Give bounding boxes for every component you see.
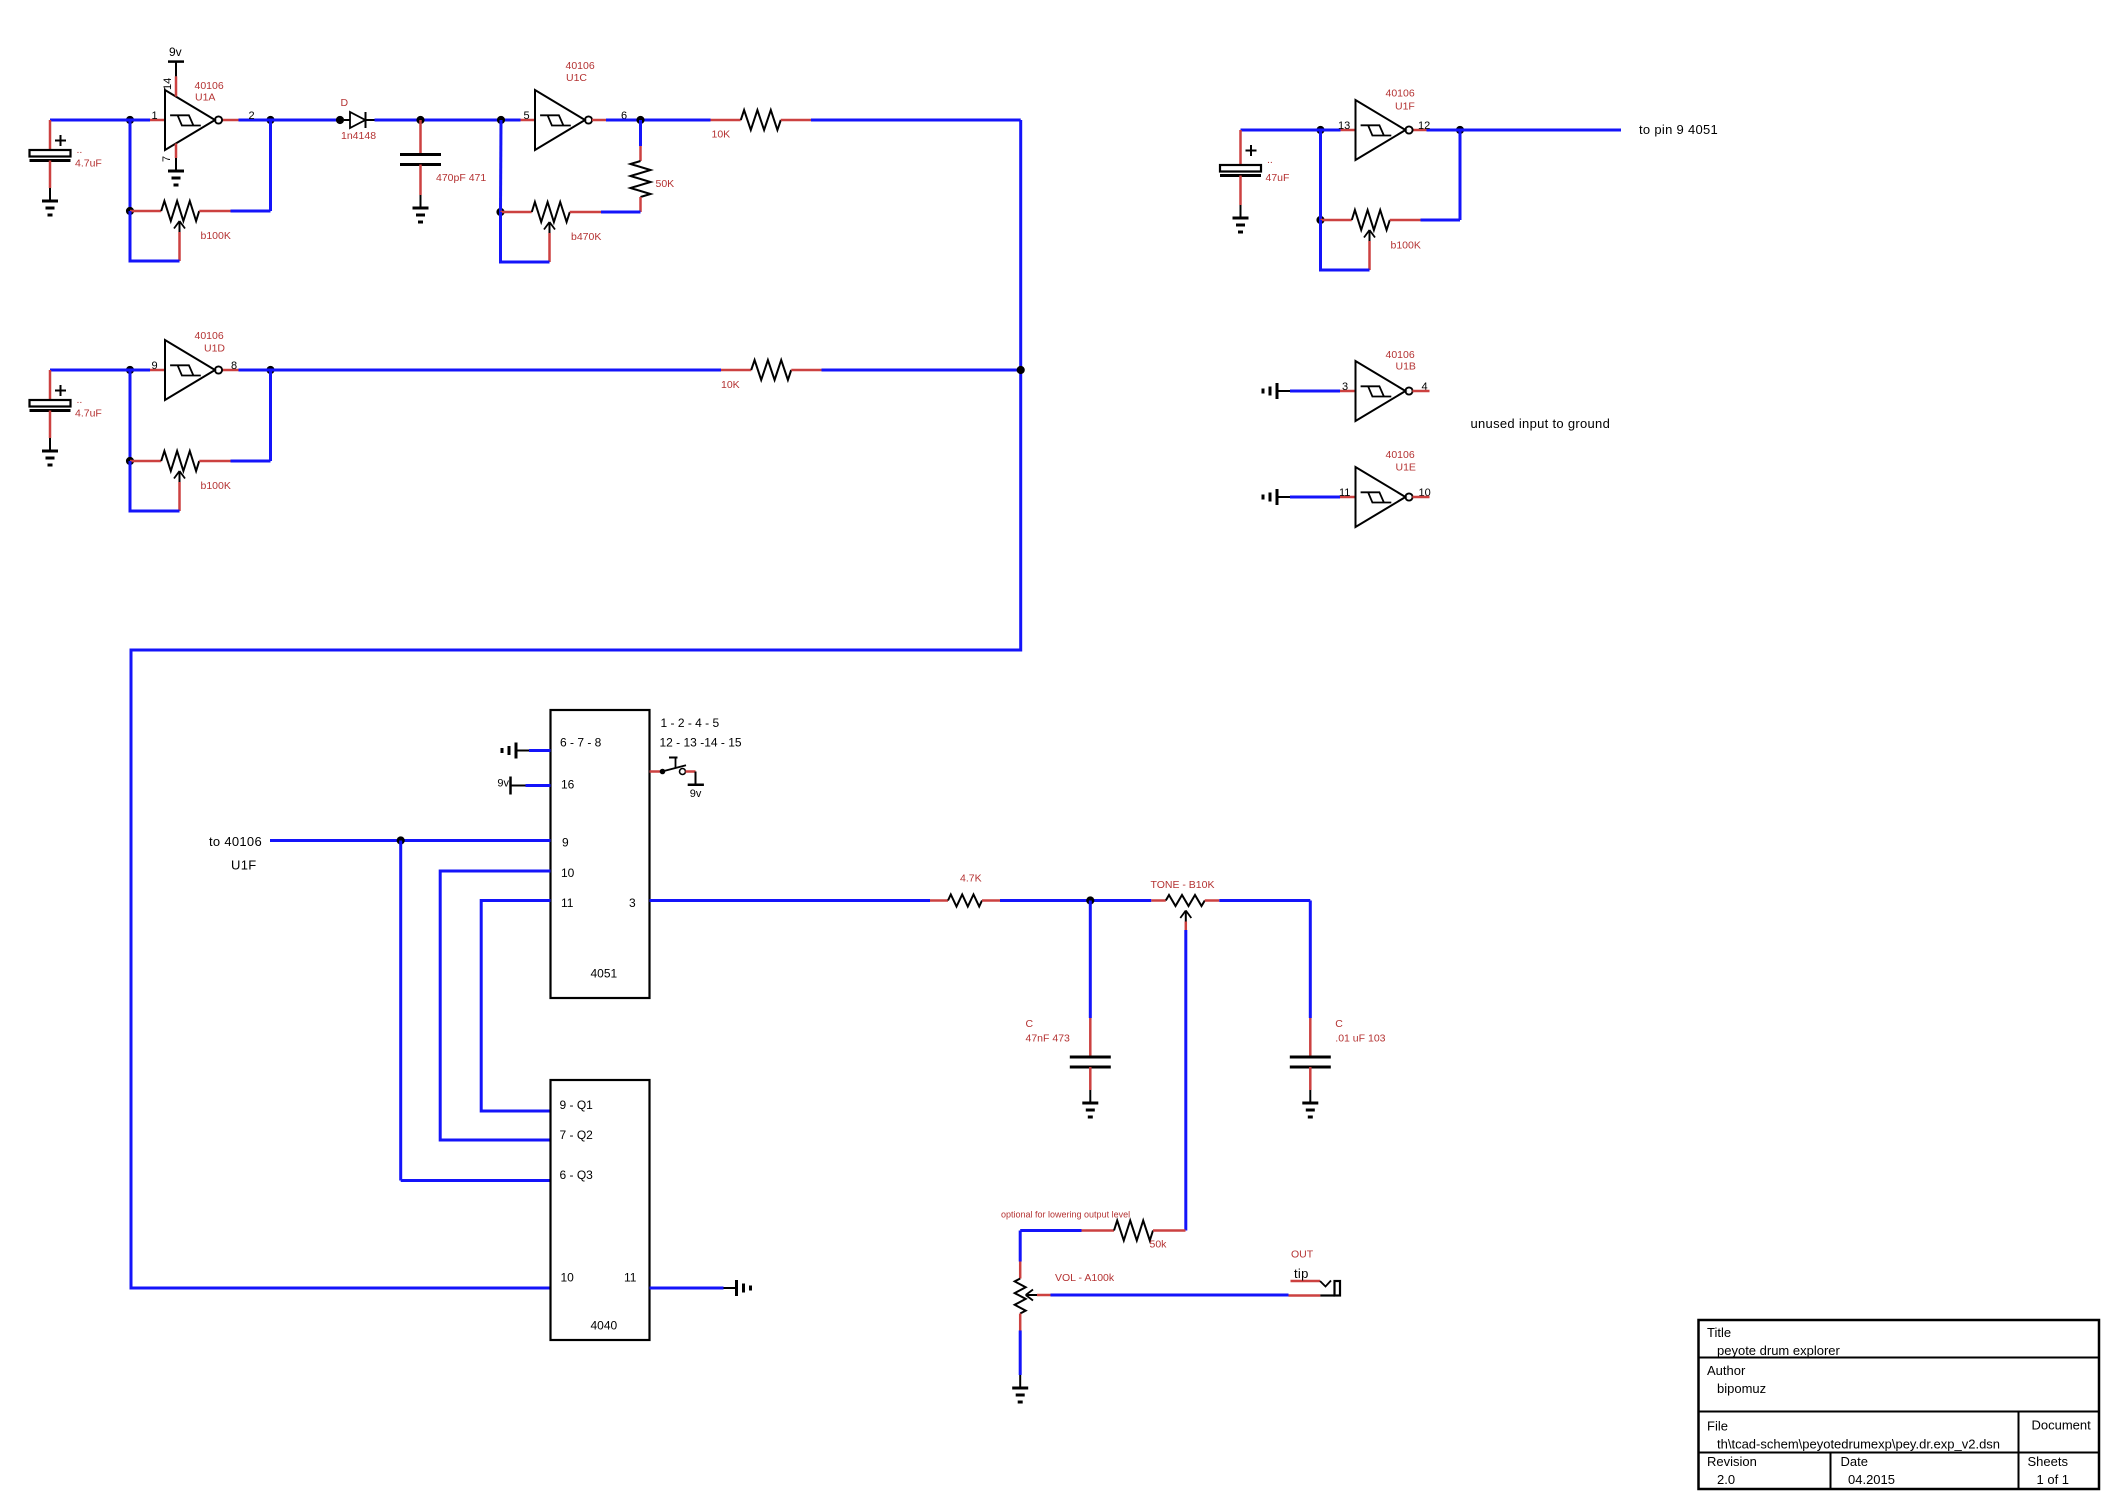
switch left contact: [660, 769, 666, 775]
capacitor C4 47uF: [1220, 165, 1261, 176]
node pot b470K left junction: [496, 208, 504, 216]
svg-text:TONE - B10K: TONE - B10K: [1151, 879, 1215, 891]
ground U1E input: [1263, 489, 1290, 505]
svg-text:U1E: U1E: [1396, 462, 1416, 474]
ground pin7 U1A: [168, 158, 184, 185]
pin 12 stub U1F: [1413, 129, 1427, 132]
resistor 50k: [1082, 1221, 1186, 1241]
svg-text:11: 11: [624, 1271, 637, 1285]
wire C4 to pin13: [1241, 129, 1341, 132]
svg-text:File: File: [1707, 1419, 1728, 1434]
inverter U1F: [1356, 100, 1413, 160]
wire pot1 wiper loop: [130, 211, 180, 261]
capacitor C5 47nF: [1070, 1057, 1111, 1067]
wire pin5 down to pot: [499, 120, 503, 212]
wire pin10 to Q2: [440, 871, 550, 1140]
inverter U1A: [165, 90, 222, 150]
svg-text:C: C: [1026, 1018, 1034, 1030]
svg-text:40106: 40106: [195, 330, 224, 342]
svg-text:peyote drum explorer: peyote drum explorer: [1717, 1343, 1841, 1358]
wire junction down to pot: [129, 370, 132, 461]
9v supply 4051 pin16: [511, 777, 526, 795]
node C2 junction: [416, 116, 424, 124]
node pin1 U1A junction: [126, 116, 134, 124]
svg-text:14: 14: [162, 78, 174, 90]
svg-text:Sheets: Sheets: [2028, 1454, 2069, 1469]
pin 14 U1A: [175, 62, 177, 77]
svg-text:5: 5: [524, 110, 530, 122]
lead C3 bottom: [49, 411, 52, 439]
pin 13 stub U1F: [1341, 129, 1356, 132]
svg-text:1n4148: 1n4148: [341, 130, 376, 142]
lead C4 bottom: [1239, 176, 1242, 206]
plus sign C3: [55, 390, 66, 392]
svg-text:40106: 40106: [1386, 349, 1415, 361]
inverter U1E: [1356, 467, 1413, 527]
ground C4: [1233, 205, 1249, 232]
svg-text:11: 11: [1339, 487, 1350, 499]
wire pot wiper loop: [130, 461, 180, 511]
jack J1 OUT: [1289, 1281, 1341, 1296]
svg-text:12 - 13 -14 - 15: 12 - 13 -14 - 15: [660, 736, 742, 750]
node pot U1F left junction: [1316, 216, 1324, 224]
svg-text:47uF: 47uF: [1266, 172, 1290, 184]
svg-text:th\tcad-schem\peyotedrumexp\pe: th\tcad-schem\peyotedrumexp\pey.dr.exp_v…: [1717, 1437, 2000, 1452]
wire down to C5: [1089, 901, 1092, 1019]
svg-text:b100K: b100K: [1391, 240, 1421, 252]
svg-text:9v: 9v: [497, 778, 509, 790]
capacitor C6 .01uF: [1290, 1057, 1331, 1067]
wire pin8 to 10K: [271, 369, 722, 372]
node bus junction row D: [1017, 366, 1025, 374]
pin 2 stub U1A: [223, 119, 239, 122]
potentiometer b470K (track): [501, 202, 602, 222]
svg-text:3: 3: [629, 896, 636, 910]
svg-text:unused input to ground: unused input to ground: [1471, 416, 1611, 431]
svg-text:VOL - A100k: VOL - A100k: [1055, 1272, 1115, 1284]
wiper b100K U1D: [174, 471, 185, 482]
svg-text:..: ..: [1267, 154, 1273, 166]
wire pot wiper loop: [1321, 220, 1370, 270]
ground 4051 pins 6-7-8: [502, 743, 529, 759]
wire 10K to bus corner: [811, 119, 1021, 122]
svg-text:6 - Q3: 6 - Q3: [560, 1168, 594, 1182]
wiper lead b470K: [548, 233, 551, 262]
wire TONE right to C6: [1219, 899, 1310, 902]
svg-text:b470K: b470K: [571, 231, 601, 243]
svg-text:Revision: Revision: [1707, 1454, 1757, 1469]
potentiometer TONE B10K (track): [1151, 895, 1219, 906]
pin 8 stub U1D: [223, 369, 239, 372]
wire bus to 4040 pin10: [131, 120, 1021, 1288]
wiper lead VOL: [1037, 1294, 1051, 1297]
svg-text:Document: Document: [2032, 1418, 2092, 1433]
wire pot right to feedback: [231, 460, 271, 463]
resistor 4.7K: [930, 895, 1000, 907]
svg-text:16: 16: [561, 778, 575, 792]
svg-text:4040: 4040: [591, 1319, 618, 1333]
svg-text:2.0: 2.0: [1717, 1472, 1735, 1487]
inverter U1D: [165, 340, 222, 400]
wire pin12 down to pot: [1459, 130, 1462, 220]
wire ground to pin3: [1290, 390, 1340, 393]
resistor 50K: [631, 146, 651, 212]
lead C4 top: [1239, 130, 1242, 165]
wire pin13 down to pot: [1319, 130, 1322, 220]
potentiometer b100K U1D (track): [130, 451, 231, 471]
plus sign C1: [55, 140, 66, 142]
svg-text:7: 7: [161, 156, 173, 162]
svg-text:3: 3: [1342, 381, 1348, 393]
wiper b100K U1A: [174, 221, 185, 232]
pin 3 stub U1B: [1340, 390, 1356, 393]
svg-text:13: 13: [1338, 120, 1350, 132]
ground VOL: [1012, 1375, 1028, 1402]
svg-text:50K: 50K: [656, 178, 675, 190]
lead C6 top: [1309, 1018, 1312, 1056]
wiper VOL: [1026, 1290, 1037, 1301]
node pin2 U1A junction: [266, 116, 274, 124]
svg-text:C: C: [1335, 1018, 1343, 1030]
svg-text:40106: 40106: [1386, 88, 1415, 100]
svg-text:U1A: U1A: [195, 92, 215, 104]
pushbutton switch S1: [665, 758, 686, 775]
svg-text:4051: 4051: [591, 967, 618, 981]
svg-text:1 - 2 - 4 - 5: 1 - 2 - 4 - 5: [661, 716, 720, 730]
svg-text:OUT: OUT: [1291, 1249, 1314, 1261]
wire pin3 output: [650, 899, 931, 902]
svg-text:47nF 473: 47nF 473: [1026, 1033, 1071, 1045]
wire TONE wiper down: [1184, 930, 1187, 1231]
wire 4.7K to TONE: [1000, 899, 1151, 902]
svg-text:04.2015: 04.2015: [1848, 1472, 1895, 1487]
node pin5 junction: [497, 116, 505, 124]
wire pot b470K wiper loop: [501, 212, 550, 262]
wire ground to 6-7-8: [529, 749, 551, 752]
lead C3 top: [49, 370, 52, 400]
svg-text:6 - 7 - 8: 6 - 7 - 8: [560, 736, 602, 750]
wire pin12 to label: [1427, 129, 1622, 132]
wire 10K to bus: [822, 369, 1021, 372]
wiper b100K U1F: [1364, 230, 1375, 241]
svg-text:10K: 10K: [712, 129, 731, 141]
inverter U1C: [535, 90, 592, 150]
pin 10 stub U1E: [1412, 496, 1429, 499]
potentiometer b100K U1A (track): [130, 201, 231, 221]
svg-text:10: 10: [561, 1271, 575, 1285]
inverter U1B: [1356, 361, 1413, 421]
potentiometer VOL A100k (track): [1015, 1262, 1026, 1331]
svg-text:2: 2: [249, 110, 255, 122]
lead C5 top: [1089, 1018, 1092, 1056]
wire pin8 out: [239, 369, 271, 372]
node pin13 junction: [1316, 126, 1324, 134]
wire diode to pin5: [375, 119, 521, 122]
node filter junction: [1086, 896, 1094, 904]
pin 7 U1A: [175, 144, 178, 159]
plus sign C4: [1246, 150, 1257, 152]
ground U1B input: [1263, 383, 1290, 399]
capacitor C2 470pF: [400, 155, 441, 165]
svg-text:8: 8: [231, 360, 237, 372]
svg-text:7 - Q2: 7 - Q2: [560, 1128, 594, 1142]
switch right lead: [686, 770, 696, 773]
wire 9v to pin16: [526, 784, 551, 787]
wiper TONE: [1180, 911, 1191, 922]
ground C1: [42, 188, 58, 215]
svg-text:U1D: U1D: [204, 343, 225, 355]
node diode anode: [336, 116, 344, 124]
wire junction2 down to pot: [269, 120, 272, 211]
wire down to VOL pot: [1019, 1231, 1022, 1262]
lead C1 top: [49, 120, 52, 150]
lead C2 top: [419, 120, 422, 154]
svg-text:U1F: U1F: [231, 858, 256, 873]
svg-text:4.7uF: 4.7uF: [75, 408, 102, 420]
wiper b470K: [544, 222, 555, 233]
resistor 10K (U1C output): [711, 110, 812, 130]
wire pot1 right to feedback: [231, 210, 271, 213]
node pin6 junction: [636, 116, 644, 124]
wiper lead TONE: [1185, 922, 1188, 931]
wiper lead b100K: [178, 232, 181, 261]
wire 50k to VOL: [1020, 1229, 1081, 1232]
svg-text:40106: 40106: [195, 80, 224, 92]
wire pin11 to Q1: [481, 901, 550, 1112]
svg-text:1: 1: [152, 110, 158, 122]
svg-text:50k: 50k: [1150, 1239, 1168, 1251]
svg-text:U1B: U1B: [1396, 361, 1416, 373]
wire VOL to jack: [1051, 1294, 1289, 1297]
wire junction down to Q3: [399, 841, 402, 1181]
node pin9 U1D junction: [126, 366, 134, 374]
wire VOL bottom to ground: [1019, 1331, 1022, 1376]
wire down to C6: [1309, 901, 1312, 1019]
pin 6 stub U1C: [592, 119, 606, 122]
svg-text:11: 11: [561, 896, 574, 910]
diode D 1n4148: [344, 112, 375, 128]
IC U2 4051: [551, 710, 650, 998]
svg-text:..: ..: [77, 394, 83, 406]
wire to Q3: [401, 1179, 551, 1182]
potentiometer b100K U1F (track): [1321, 210, 1422, 230]
svg-text:9: 9: [152, 360, 158, 372]
ground 4040 pin11: [724, 1280, 751, 1296]
svg-text:4.7uF: 4.7uF: [75, 158, 102, 170]
svg-text:4.7K: 4.7K: [960, 873, 982, 885]
svg-text:optional for lowering output l: optional for lowering output level: [1001, 1210, 1130, 1220]
svg-text:9 - Q1: 9 - Q1: [560, 1098, 594, 1112]
svg-text:U1F: U1F: [1395, 101, 1415, 113]
svg-text:U1C: U1C: [566, 72, 587, 84]
capacitor C3 4.7uF: [30, 400, 71, 411]
pin 1 stub U1A: [150, 119, 165, 122]
wiper lead: [1368, 241, 1371, 270]
svg-text:9v: 9v: [169, 45, 182, 59]
svg-text:b100K: b100K: [201, 480, 231, 492]
ground C3: [42, 438, 58, 465]
svg-text:12: 12: [1418, 120, 1430, 132]
wire pin6 to 10K: [606, 119, 711, 122]
svg-text:b100K: b100K: [201, 230, 231, 242]
svg-text:9v: 9v: [690, 788, 702, 800]
pin 11 stub U1E: [1340, 496, 1356, 499]
svg-text:D: D: [341, 97, 349, 109]
svg-text:to 40106: to 40106: [209, 834, 262, 849]
lead C6 bottom: [1309, 1067, 1312, 1090]
wiper lead: [178, 482, 181, 511]
wire down to 50K: [639, 120, 642, 146]
wire C1 to pin1: [50, 119, 150, 122]
pin 12-13-14-15 stub: [650, 770, 661, 773]
svg-text:..: ..: [77, 144, 83, 156]
ground C5: [1082, 1090, 1098, 1117]
svg-text:40106: 40106: [566, 60, 595, 72]
svg-text:1 of 1: 1 of 1: [2037, 1472, 2070, 1487]
svg-text:40106: 40106: [1386, 449, 1415, 461]
pin 9 stub U1D: [150, 369, 165, 372]
lead C5 bottom: [1089, 1067, 1092, 1090]
lead C1 bottom: [49, 161, 52, 189]
node pin9 junction: [397, 836, 405, 844]
wire pin9 4051: [270, 839, 551, 842]
wire junction1 down to pot: [129, 120, 132, 211]
svg-text:10K: 10K: [721, 379, 740, 391]
wire C3 to pin9: [50, 369, 150, 372]
wire out down to pot: [269, 370, 272, 461]
lead C2 bottom: [419, 165, 422, 196]
resistor 10K (U1D output): [721, 360, 822, 380]
svg-text:bipomuz: bipomuz: [1717, 1381, 1766, 1396]
svg-text:Title: Title: [1707, 1325, 1731, 1340]
wire pot b470K right to 50K bottom: [601, 211, 641, 214]
svg-text:.01 uF 103: .01 uF 103: [1335, 1033, 1385, 1045]
svg-text:to pin 9 4051: to pin 9 4051: [1639, 122, 1718, 137]
pin 5 stub U1C: [521, 119, 536, 122]
svg-text:tip: tip: [1294, 1266, 1309, 1281]
node pin12 junction: [1456, 126, 1464, 134]
node pot1 left junction: [126, 207, 134, 215]
wire ground to pin11: [1290, 496, 1340, 499]
ground C6: [1302, 1090, 1318, 1117]
node pin8 U1D junction: [266, 366, 274, 374]
wire pin2 to diode: [239, 119, 341, 122]
capacitor C1 4.7uF: [30, 150, 71, 161]
wire pin11 to ground: [650, 1287, 724, 1290]
svg-text:Date: Date: [1841, 1454, 1868, 1469]
node pot U1D left junction: [126, 457, 134, 465]
svg-text:10: 10: [561, 866, 575, 880]
9v supply U1A pin14: [168, 60, 184, 63]
title block: [1699, 1320, 2100, 1489]
wire pot right: [1421, 219, 1461, 222]
svg-text:9: 9: [562, 836, 569, 850]
ground C2: [413, 195, 429, 222]
9v supply switch: [688, 772, 704, 785]
svg-text:Author: Author: [1707, 1363, 1746, 1378]
IC U3 4040: [551, 1080, 650, 1340]
svg-text:470pF 471: 470pF 471: [436, 172, 486, 184]
pin 4 stub U1B: [1412, 390, 1429, 393]
